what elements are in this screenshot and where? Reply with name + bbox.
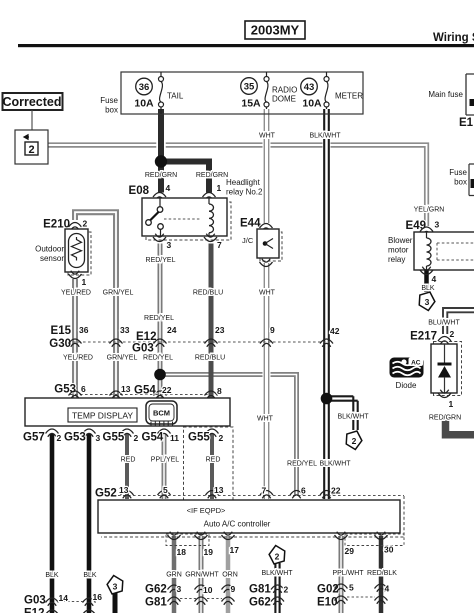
svg-text:RADIO: RADIO bbox=[272, 86, 297, 95]
svg-text:G53: G53 bbox=[54, 384, 76, 396]
svg-text:GRN/YEL: GRN/YEL bbox=[103, 290, 134, 297]
svg-text:GRN/YEL: GRN/YEL bbox=[107, 355, 138, 362]
wire YEL/RED E210 pin1 to TEMP DISPLAY bbox=[72, 279, 78, 398]
svg-text:3: 3 bbox=[167, 240, 172, 250]
svg-text:5: 5 bbox=[349, 583, 354, 593]
svg-text:sensor: sensor bbox=[40, 254, 64, 263]
svg-text:TEMP DISPLAY: TEMP DISPLAY bbox=[72, 411, 133, 421]
svg-text:Auto A/C controller: Auto A/C controller bbox=[204, 520, 271, 529]
svg-text:13: 13 bbox=[121, 384, 131, 394]
off-page arrow 3 (blower) bbox=[417, 291, 437, 312]
svg-text:11: 11 bbox=[170, 433, 179, 443]
svg-text:10: 10 bbox=[203, 585, 213, 595]
svg-text:RED/GRN: RED/GRN bbox=[145, 172, 177, 179]
svg-text:10A: 10A bbox=[302, 98, 322, 110]
svg-text:35: 35 bbox=[244, 82, 255, 93]
svg-text:4: 4 bbox=[385, 584, 390, 594]
svg-text:YEL/RED: YEL/RED bbox=[63, 355, 93, 362]
svg-text:WHT: WHT bbox=[259, 290, 276, 297]
svg-text:relay: relay bbox=[388, 255, 405, 264]
svg-text:E08: E08 bbox=[129, 185, 150, 197]
connector row G53 G54 bbox=[54, 384, 222, 399]
svg-text:box: box bbox=[454, 178, 467, 187]
svg-text:2: 2 bbox=[275, 552, 280, 562]
svg-text:GRN: GRN bbox=[166, 572, 182, 579]
svg-text:8: 8 bbox=[217, 386, 222, 396]
connector row E15 G30 E12 G03 bbox=[49, 325, 339, 355]
svg-text:2: 2 bbox=[450, 329, 455, 339]
svg-text:METER: METER bbox=[335, 92, 363, 101]
wire RED/YEL relay pin3 down to junction bbox=[158, 244, 163, 372]
wire BLK G57-2 down to G03 bbox=[50, 434, 55, 613]
svg-text:Outdoor: Outdoor bbox=[35, 245, 64, 254]
svg-text:42: 42 bbox=[330, 326, 340, 336]
svg-text:box: box bbox=[105, 106, 118, 115]
svg-text:E217: E217 bbox=[410, 331, 437, 343]
wire ORN A/C pin17 down bbox=[226, 536, 231, 613]
svg-text:2: 2 bbox=[352, 436, 357, 446]
svg-text:13: 13 bbox=[214, 485, 224, 495]
wire PPL/YEL G54-11 down to G52 bbox=[162, 434, 167, 499]
svg-text:E44: E44 bbox=[240, 218, 261, 230]
fuse box (top) bbox=[121, 72, 363, 114]
svg-text:Diode: Diode bbox=[396, 381, 417, 390]
gray trunk harness line from node 2 to E49 bbox=[38, 143, 428, 226]
svg-text:17: 17 bbox=[230, 545, 240, 555]
svg-text:G81: G81 bbox=[145, 597, 167, 609]
svg-text:3: 3 bbox=[113, 582, 118, 592]
svg-text:15A: 15A bbox=[241, 98, 261, 110]
svg-text:9: 9 bbox=[270, 325, 275, 335]
svg-text:G57: G57 bbox=[23, 432, 45, 444]
svg-text:YEL/RED: YEL/RED bbox=[61, 290, 91, 297]
svg-text:2: 2 bbox=[219, 433, 224, 443]
wire from corrected box bbox=[31, 110, 33, 130]
off-page arrow 3 (bottom) bbox=[105, 574, 125, 595]
svg-text:RED: RED bbox=[206, 457, 221, 464]
svg-text:30: 30 bbox=[384, 545, 394, 555]
svg-text:3: 3 bbox=[425, 297, 430, 307]
svg-text:G52: G52 bbox=[95, 488, 117, 500]
svg-text:5: 5 bbox=[163, 485, 168, 495]
wire RED/BLU relay pin7 to G54 bbox=[209, 244, 214, 399]
svg-text:RED/YEL: RED/YEL bbox=[143, 355, 173, 362]
svg-text:Fuse: Fuse bbox=[449, 168, 467, 177]
svg-text:WHT: WHT bbox=[259, 133, 276, 140]
svg-text:9: 9 bbox=[231, 584, 236, 594]
svg-text:22: 22 bbox=[331, 486, 341, 496]
svg-text:G03: G03 bbox=[24, 595, 46, 607]
svg-text:G62: G62 bbox=[249, 597, 271, 609]
svg-text:<IF EQPD>: <IF EQPD> bbox=[187, 506, 226, 515]
svg-text:BLK/WHT: BLK/WHT bbox=[319, 461, 351, 468]
wire BLK blower relay pin4 bbox=[424, 270, 429, 292]
node junction RED/YEL bbox=[154, 369, 166, 381]
svg-text:14: 14 bbox=[59, 593, 69, 603]
svg-text:RED/BLU: RED/BLU bbox=[195, 355, 225, 362]
corrected box bbox=[2, 93, 62, 110]
svg-text:RED/GRN: RED/GRN bbox=[196, 172, 228, 179]
svg-text:43: 43 bbox=[304, 82, 315, 93]
wire PPL/WHT A/C pin29 down bbox=[339, 536, 344, 613]
svg-text:Main fuse: Main fuse bbox=[428, 90, 463, 99]
connector G03/E12 bottom bbox=[24, 592, 102, 613]
off-page arrow 2 (from BLK/WHT) bbox=[267, 544, 287, 565]
box TEMP DISPLAY / BCM bbox=[25, 398, 230, 427]
wire BLK/WHT from arrow 2 down to G81 bbox=[275, 563, 279, 613]
svg-text:G03: G03 bbox=[132, 343, 154, 355]
svg-text:PPL/WHT: PPL/WHT bbox=[332, 570, 364, 577]
svg-text:16: 16 bbox=[93, 592, 103, 602]
sensor E210 outdoor sensor bbox=[35, 219, 91, 288]
svg-text:motor: motor bbox=[388, 246, 409, 255]
wire GRN/YEL E210 pin2 up and over to TEMP DISPLAY bbox=[75, 212, 116, 398]
svg-text:1: 1 bbox=[217, 183, 222, 193]
svg-text:TAIL: TAIL bbox=[167, 92, 184, 101]
svg-text:GRN/WHT: GRN/WHT bbox=[185, 572, 219, 579]
icon AC diode bbox=[390, 358, 424, 391]
wire GRN/WHT A/C pin19 down bbox=[199, 536, 204, 613]
svg-text:ORN: ORN bbox=[222, 572, 238, 579]
svg-text:relay No.2: relay No.2 bbox=[226, 188, 263, 197]
svg-text:18: 18 bbox=[177, 547, 187, 557]
svg-text:13: 13 bbox=[119, 485, 129, 495]
A/C outputs chevrons and pins bbox=[166, 532, 404, 557]
svg-text:7: 7 bbox=[262, 486, 267, 496]
svg-text:Fuse: Fuse bbox=[100, 96, 118, 105]
svg-text:RED/BLK: RED/BLK bbox=[367, 570, 397, 577]
node junction RED/GRN bbox=[155, 155, 167, 167]
svg-text:RED/YEL: RED/YEL bbox=[146, 257, 176, 264]
relay E08 headlight relay No.2 bbox=[129, 178, 263, 250]
svg-text:G55: G55 bbox=[188, 432, 210, 444]
connector row G52 bbox=[95, 485, 404, 500]
svg-text:RED/BLU: RED/BLU bbox=[193, 290, 223, 297]
svg-text:DOME: DOME bbox=[272, 95, 296, 104]
wire WHT fuse35 through E44 to A/C pin 7 bbox=[264, 109, 268, 499]
svg-text:RED/GRN: RED/GRN bbox=[429, 415, 461, 422]
svg-text:3: 3 bbox=[177, 584, 182, 594]
svg-text:3: 3 bbox=[96, 433, 101, 443]
svg-text:Headlight: Headlight bbox=[226, 178, 261, 187]
junction connector E44 J/C bbox=[240, 218, 282, 267]
svg-text:G55: G55 bbox=[103, 432, 125, 444]
svg-text:WHT: WHT bbox=[257, 416, 274, 423]
svg-text:Blower: Blower bbox=[388, 236, 413, 245]
svg-text:BLK: BLK bbox=[45, 572, 59, 579]
fuse 35 RADIO DOME 15A bbox=[241, 72, 298, 110]
main fuse box (top right, clipped) bbox=[428, 74, 474, 115]
title box 2003MY bbox=[245, 21, 305, 39]
top rule bbox=[18, 44, 474, 47]
diode E217 bbox=[410, 329, 461, 409]
connector G62/G81 bottom bbox=[145, 584, 236, 609]
svg-text:G81: G81 bbox=[249, 584, 271, 596]
fuse 36 TAIL 10A bbox=[134, 72, 183, 114]
svg-text:BLK/WHT: BLK/WHT bbox=[309, 133, 341, 140]
svg-text:BLK/WHT: BLK/WHT bbox=[337, 414, 369, 421]
svg-text:2: 2 bbox=[28, 144, 34, 156]
wire BLK off-page arrow 3 down bbox=[113, 592, 118, 613]
node junction BLK/WHT bbox=[321, 393, 333, 405]
wire RED/GRN from fuse 36 to relay E08 bbox=[156, 112, 166, 161]
svg-text:E49: E49 bbox=[406, 220, 426, 232]
svg-text:E12: E12 bbox=[24, 608, 44, 613]
svg-text:E15: E15 bbox=[51, 325, 72, 337]
connector G81/G62 bottom bbox=[249, 584, 289, 609]
svg-text:2: 2 bbox=[83, 219, 88, 229]
wire RED/YEL branch junction to A/C pin 6 bbox=[160, 375, 297, 497]
wire BLK/WHT fuse43 to A/C pin 22 bbox=[324, 109, 329, 499]
svg-text:2003MY: 2003MY bbox=[251, 23, 300, 38]
svg-text:G54: G54 bbox=[142, 432, 164, 444]
wire RED/GRN diode to right edge bbox=[446, 420, 474, 435]
svg-text:3: 3 bbox=[435, 220, 440, 230]
svg-text:G54: G54 bbox=[134, 385, 156, 397]
svg-text:Corrected: Corrected bbox=[2, 95, 61, 109]
wire RED G55-2b down to G52 bbox=[210, 434, 214, 499]
svg-text:10A: 10A bbox=[134, 98, 154, 110]
svg-text:G62: G62 bbox=[145, 584, 167, 596]
svg-text:29: 29 bbox=[345, 546, 355, 556]
connector G02/E10 bottom bbox=[317, 583, 390, 609]
relay E49 blower motor relay bbox=[388, 220, 474, 285]
svg-text:J/C: J/C bbox=[242, 236, 254, 245]
svg-text:33: 33 bbox=[120, 325, 130, 335]
wire RED/BLK A/C pin30 down bbox=[379, 536, 384, 613]
dashed IF EQPD enclosure bbox=[184, 427, 234, 500]
wire BLU/WHT from right edge to E217 bbox=[443, 308, 474, 334]
svg-text:RED/YEL: RED/YEL bbox=[144, 315, 174, 322]
fuse 43 METER 10A bbox=[301, 72, 364, 110]
svg-text:E1: E1 bbox=[459, 117, 474, 129]
wire BLK/WHT branch to arrow 2 bbox=[327, 396, 358, 430]
off-page arrow 2 (to G81) bbox=[344, 430, 364, 451]
svg-text:PPL/YEL: PPL/YEL bbox=[151, 457, 180, 464]
wire RED G55-2 down to G52 bbox=[125, 434, 129, 499]
svg-text:36: 36 bbox=[139, 82, 150, 93]
connector row G57 G53 G55 G54 G55 bbox=[23, 429, 224, 444]
svg-text:19: 19 bbox=[204, 547, 214, 557]
svg-text:6: 6 bbox=[301, 486, 306, 496]
svg-text:BCM: BCM bbox=[153, 409, 170, 418]
svg-text:E10: E10 bbox=[317, 597, 337, 609]
svg-text:G30: G30 bbox=[49, 338, 71, 350]
connector ref box node 2 bbox=[15, 130, 48, 164]
wire BLK G53-3 down to G03 bbox=[87, 434, 92, 613]
svg-text:AC: AC bbox=[411, 360, 421, 367]
svg-text:RED: RED bbox=[121, 457, 136, 464]
svg-text:22: 22 bbox=[162, 385, 172, 395]
svg-text:BLK/WHT: BLK/WHT bbox=[261, 570, 293, 577]
svg-text:2: 2 bbox=[284, 585, 289, 595]
svg-text:Wiring Sy: Wiring Sy bbox=[433, 32, 474, 44]
svg-text:BLU/WHT: BLU/WHT bbox=[428, 320, 460, 327]
svg-text:RED/YEL: RED/YEL bbox=[287, 461, 317, 468]
svg-text:2: 2 bbox=[57, 433, 62, 443]
svg-text:BLK: BLK bbox=[421, 285, 435, 292]
svg-text:1: 1 bbox=[82, 277, 87, 287]
box auto A/C controller bbox=[98, 496, 404, 537]
svg-text:4: 4 bbox=[166, 183, 171, 193]
wire GRN A/C pin18 down bbox=[172, 536, 177, 613]
svg-text:24: 24 bbox=[167, 325, 177, 335]
svg-text:E12: E12 bbox=[136, 331, 156, 343]
svg-text:2: 2 bbox=[134, 433, 139, 443]
wire RED/YEL junction to TEMP DISPLAY bbox=[158, 371, 163, 398]
svg-text:G53: G53 bbox=[64, 432, 86, 444]
svg-text:23: 23 bbox=[215, 325, 225, 335]
svg-text:36: 36 bbox=[79, 325, 89, 335]
fuse box (right, clipped) bbox=[449, 164, 474, 196]
svg-text:YEL/GRN: YEL/GRN bbox=[414, 207, 445, 214]
svg-text:6: 6 bbox=[81, 384, 86, 394]
svg-text:G02: G02 bbox=[317, 584, 339, 596]
svg-text:4: 4 bbox=[432, 274, 437, 284]
svg-text:BLK: BLK bbox=[83, 572, 97, 579]
svg-text:7: 7 bbox=[217, 240, 222, 250]
svg-text:1: 1 bbox=[449, 399, 454, 409]
